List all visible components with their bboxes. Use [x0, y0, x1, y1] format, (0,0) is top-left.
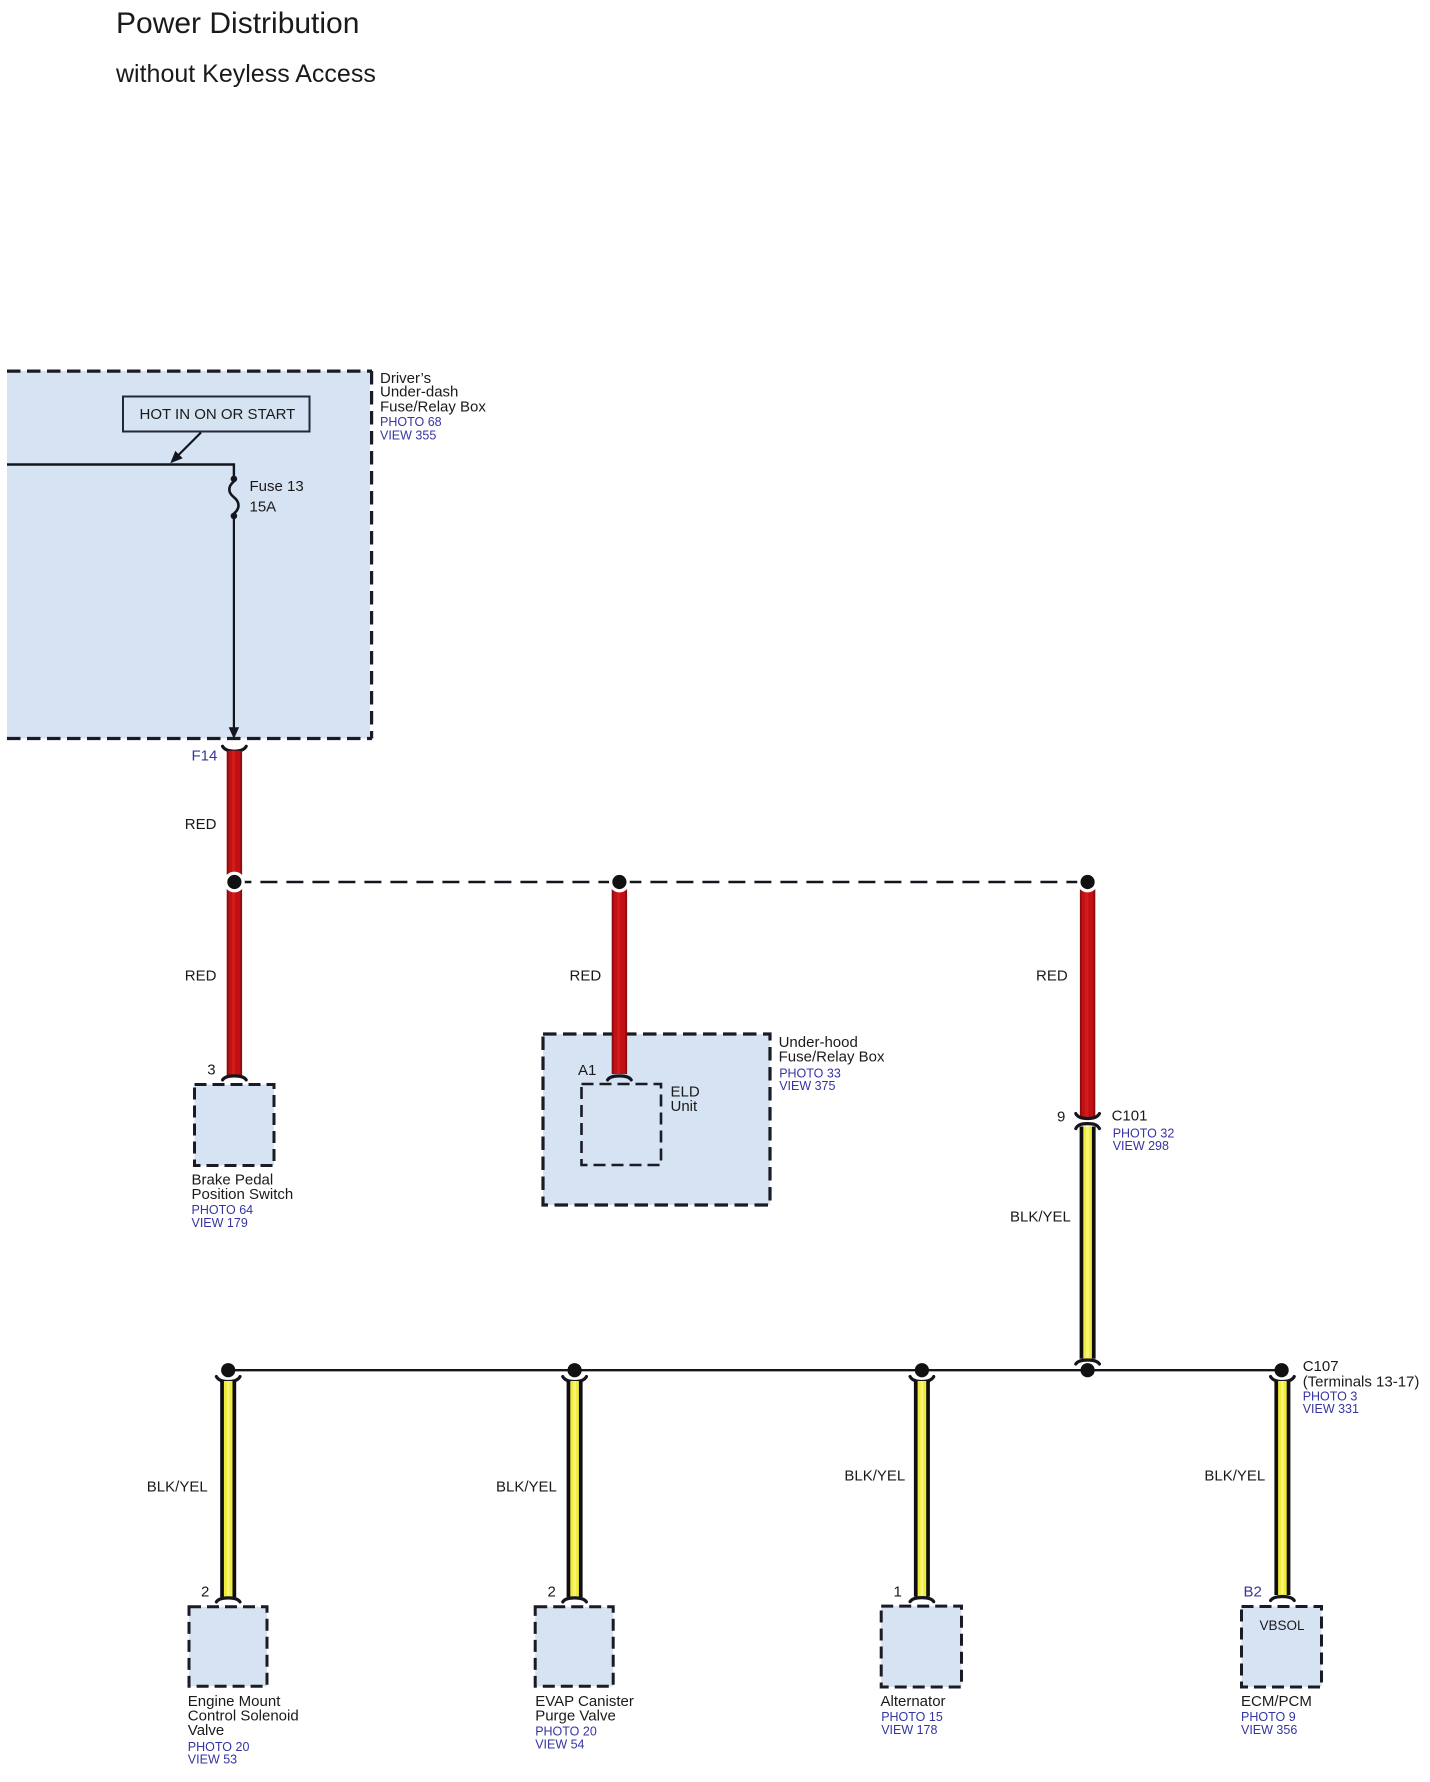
svg-text:1: 1	[894, 1584, 902, 1601]
ECM/PCM labels	[1241, 1693, 1312, 1737]
svg-text:Purge Valve: Purge Valve	[535, 1707, 616, 1724]
svg-text:F14: F14	[192, 747, 218, 764]
wire BLK/YEL alternator drop	[914, 1381, 930, 1597]
solid bus wire	[228, 1369, 1282, 1371]
svg-text:(Terminals 13-17): (Terminals 13-17)	[1303, 1373, 1420, 1390]
wire: fuse output down to box edge with arrowhead	[229, 519, 239, 740]
connector cup below J4	[216, 1377, 240, 1382]
wire RED segment F14 to junction to terminal 3	[227, 751, 242, 1076]
connector at EVAP (frown)	[563, 1598, 587, 1602]
svg-text:2: 2	[548, 1584, 556, 1601]
svg-text:Fuse/Relay Box: Fuse/Relay Box	[779, 1049, 885, 1066]
junction J6 (alternator drop)	[915, 1363, 929, 1377]
EVAP Canister Purge Valve box	[535, 1607, 613, 1687]
svg-text:VIEW 54: VIEW 54	[535, 1738, 584, 1752]
svg-text:VIEW 179: VIEW 179	[192, 1216, 248, 1230]
connector at terminal 3 (frown)	[223, 1076, 247, 1080]
svg-text:BLK/YEL: BLK/YEL	[147, 1479, 208, 1496]
ECM/PCM box	[1242, 1607, 1322, 1688]
svg-text:HOT IN ON OR START: HOT IN ON OR START	[140, 406, 296, 423]
junction J4 (engine mount drop)	[221, 1363, 235, 1377]
svg-text:Fuse/Relay Box: Fuse/Relay Box	[380, 398, 486, 415]
svg-text:RED: RED	[1036, 967, 1068, 984]
svg-text:Fuse 13: Fuse 13	[250, 478, 304, 495]
connector at F14 (cup)	[223, 746, 247, 751]
connector cup below J5	[563, 1377, 587, 1382]
Brake Pedal Position Switch labels	[192, 1171, 294, 1230]
svg-text:VIEW 178: VIEW 178	[881, 1723, 937, 1737]
connector at ECM (frown)	[1271, 1597, 1295, 1601]
svg-text:Valve: Valve	[188, 1722, 224, 1739]
svg-text:Unit: Unit	[671, 1098, 699, 1115]
connector cup below J8 (ECM drop)	[1271, 1377, 1295, 1382]
Alternator box	[881, 1606, 961, 1687]
svg-text:VIEW 356: VIEW 356	[1241, 1723, 1297, 1737]
svg-text:RED: RED	[185, 967, 217, 984]
wire: fuse feed (horizontal then corner down)	[7, 465, 234, 478]
svg-text:VIEW 331: VIEW 331	[1303, 1402, 1359, 1416]
HOT IN ON OR START box	[123, 397, 310, 432]
svg-text:VIEW 375: VIEW 375	[779, 1079, 835, 1093]
svg-text:RED: RED	[570, 967, 602, 984]
wire BLK/YEL EVAP drop	[567, 1381, 583, 1597]
svg-text:VIEW 355: VIEW 355	[380, 429, 436, 443]
svg-text:BLK/YEL: BLK/YEL	[1204, 1467, 1265, 1484]
svg-text:Alternator: Alternator	[881, 1693, 946, 1710]
Engine Mount labels	[188, 1693, 299, 1767]
Brake Pedal Position Switch box	[195, 1085, 275, 1166]
fuse F13 (Fuse 13 15A)	[229, 476, 303, 520]
junction J2 (middle, on dashed bus)	[609, 872, 630, 893]
junction J7 (C101 wire joins bus)	[1081, 1363, 1095, 1377]
svg-text:RED: RED	[185, 816, 217, 833]
svg-text:without Keyless Access: without Keyless Access	[115, 60, 376, 88]
svg-text:PHOTO 68: PHOTO 68	[380, 415, 442, 429]
dashed bus wire (hot in on or start net)	[234, 881, 1087, 883]
svg-text:PHOTO 9: PHOTO 9	[1241, 1710, 1296, 1724]
connector at engine mount (frown)	[216, 1598, 240, 1602]
arrow annotation from HOT box to wire	[170, 433, 201, 464]
svg-text:PHOTO 20: PHOTO 20	[535, 1725, 597, 1739]
C101 labels	[1112, 1107, 1175, 1153]
svg-text:C101: C101	[1112, 1107, 1148, 1124]
svg-text:BLK/YEL: BLK/YEL	[1010, 1209, 1071, 1226]
junction J8 (C107)	[1275, 1363, 1289, 1377]
svg-text:9: 9	[1057, 1109, 1065, 1126]
svg-text:15A: 15A	[250, 498, 277, 515]
connector cup below J6	[910, 1377, 934, 1382]
ELD Unit labels	[671, 1083, 700, 1115]
connector C101 (cup + cap pair)	[1076, 1114, 1100, 1129]
svg-text:A1: A1	[578, 1062, 596, 1079]
svg-text:BLK/YEL: BLK/YEL	[496, 1479, 557, 1496]
svg-text:3: 3	[207, 1062, 215, 1079]
wire BLK/YEL ECM drop	[1274, 1381, 1290, 1595]
ELD Unit box	[582, 1084, 662, 1165]
Under-hood Fuse/Relay Box	[543, 1034, 770, 1205]
wire RED right branch	[1080, 884, 1095, 1118]
connector at bus top (frown above junction)	[1076, 1360, 1100, 1364]
EVAP labels	[535, 1693, 634, 1752]
wire RED middle branch	[612, 884, 627, 1074]
Driver's Under-dash Fuse/Relay Box	[7, 371, 372, 739]
Driver's box label block	[380, 370, 486, 443]
wire BLK/YEL engine mount drop	[220, 1381, 236, 1597]
svg-text:2: 2	[201, 1584, 209, 1601]
junction J3 (right, on dashed bus)	[1077, 872, 1098, 893]
svg-text:B2: B2	[1244, 1583, 1262, 1600]
Under-hood label block	[779, 1034, 885, 1093]
C107 labels	[1303, 1358, 1420, 1416]
wire BLK/YEL C101 to bus	[1080, 1127, 1096, 1359]
svg-text:BLK/YEL: BLK/YEL	[844, 1467, 905, 1484]
svg-text:Position Switch: Position Switch	[192, 1186, 294, 1203]
junction J1 (left, on dashed bus)	[224, 872, 245, 893]
svg-text:Power Distribution: Power Distribution	[116, 7, 359, 40]
title	[115, 7, 376, 88]
connector at alternator (frown)	[910, 1598, 934, 1602]
svg-text:ECM/PCM: ECM/PCM	[1241, 1693, 1312, 1710]
svg-text:VIEW 298: VIEW 298	[1113, 1139, 1169, 1153]
Alternator labels	[881, 1693, 946, 1737]
svg-text:VBSOL: VBSOL	[1260, 1618, 1306, 1633]
svg-text:PHOTO 15: PHOTO 15	[881, 1710, 943, 1724]
connector at A1 (frown)	[608, 1076, 632, 1080]
svg-text:VIEW 53: VIEW 53	[188, 1753, 237, 1767]
Engine Mount Control Solenoid Valve box	[189, 1607, 267, 1687]
svg-text:PHOTO 64: PHOTO 64	[192, 1203, 254, 1217]
junction J5 (EVAP drop)	[568, 1363, 582, 1377]
